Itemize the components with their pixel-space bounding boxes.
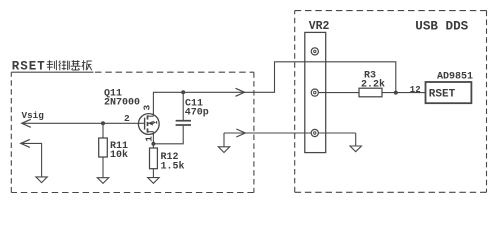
off-page arrow Vsig (points left) xyxy=(22,119,31,127)
svg-text:10k: 10k xyxy=(110,149,128,161)
wire crossing through box (top net) redrawn over box fill xyxy=(305,61,326,63)
wire: source down to R12 xyxy=(152,132,154,148)
resistor R1 1 box xyxy=(99,138,108,157)
resistor R3 box xyxy=(359,88,382,97)
svg-text:2.2k: 2.2k xyxy=(361,79,385,91)
kanji 基 xyxy=(71,60,81,70)
resistor R12 box xyxy=(150,148,158,169)
off-page arrow (signal return) xyxy=(21,139,30,147)
svg-text:1.5k: 1.5k xyxy=(161,161,185,173)
svg-text:2N7000: 2N7000 xyxy=(104,98,140,109)
terminal 2 (wiper) xyxy=(311,89,318,96)
svg-text:470p: 470p xyxy=(185,108,209,119)
channel segments xyxy=(147,115,149,119)
svg-text:12: 12 xyxy=(410,85,421,95)
svg-text:Vsig: Vsig xyxy=(22,110,45,121)
source connector xyxy=(148,131,154,133)
svg-text:VR2: VR2 xyxy=(309,20,330,33)
svg-text:USB DDS: USB DDS xyxy=(415,20,468,34)
terminal 3 xyxy=(311,129,318,136)
wire: ground bus to VR2 bottom xyxy=(224,132,311,134)
svg-text:RSET: RSET xyxy=(12,60,46,74)
svg-text:RSET: RSET xyxy=(429,89,456,101)
frame: RSET control board dashed box xyxy=(11,72,254,192)
potentiometer VR2 xyxy=(305,20,330,152)
ground (left) xyxy=(36,177,47,183)
gate bar xyxy=(144,118,146,130)
drain connector xyxy=(148,115,154,117)
ground (under R12) xyxy=(148,178,159,184)
ground (right) xyxy=(350,146,361,152)
svg-text:AD9851: AD9851 xyxy=(437,72,473,83)
node: gate/R11 junction xyxy=(101,121,105,125)
wire: left stub down xyxy=(223,133,225,147)
wire: R11 bottom xyxy=(102,157,104,178)
kanji 板 xyxy=(82,60,92,70)
capacitor C11 xyxy=(176,98,209,125)
ground (mid-left) xyxy=(218,147,229,153)
body connector with arrow xyxy=(148,122,153,124)
wire: return to ground xyxy=(21,143,42,177)
kanji 御 xyxy=(59,60,70,70)
svg-text:3: 3 xyxy=(142,105,153,111)
frame: USB DDS dashed box xyxy=(295,11,487,193)
arrow on ground bus (points right) xyxy=(236,129,245,137)
IC AD9851 xyxy=(426,72,474,104)
wire: right stub down xyxy=(355,133,357,146)
wire: down to C11 xyxy=(182,92,184,120)
wire: drain up and right xyxy=(153,62,395,116)
wire: VR2 wiper to R3 xyxy=(319,92,360,94)
ground (under R11) xyxy=(97,178,108,184)
body diode mark xyxy=(153,121,157,125)
node: C11 tap xyxy=(181,90,185,94)
svg-text:2: 2 xyxy=(124,113,130,124)
terminal 1 xyxy=(311,48,318,55)
arrow on drain wire (points right) xyxy=(236,88,245,96)
wire: R12 bottom xyxy=(152,169,154,178)
node: R3/riser junction xyxy=(394,91,398,95)
transistor Q11 2N7000 xyxy=(104,88,159,142)
svg-text:1: 1 xyxy=(143,136,154,142)
wire: C11 bottom to source node xyxy=(153,126,183,144)
wire: junction to R11 xyxy=(102,123,104,138)
label RSET制御基板 xyxy=(12,60,92,74)
wire: R3 to AD9851 pin 12 xyxy=(382,92,426,94)
wire: Vsig to gate xyxy=(22,122,145,124)
node: source/R12/C11 junction xyxy=(151,142,155,146)
gate lead inside circle xyxy=(138,122,145,124)
kanji 制 (drawn strokes) xyxy=(47,60,57,70)
